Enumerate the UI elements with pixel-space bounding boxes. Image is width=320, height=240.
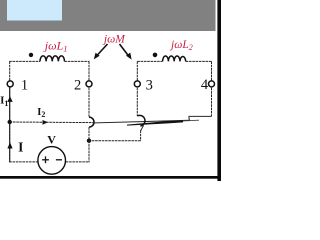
svg-text:2: 2 (74, 77, 81, 93)
wire: left rail (source branch) (9, 61, 11, 162)
wire: overshoot stroke past step (183, 119, 199, 122)
polarity dot of L1 (29, 53, 33, 57)
wire: left rail solid overlay node1 to I arrow (9, 88, 11, 162)
wire: right loop top segment left of coil (137, 60, 162, 62)
junction dot A (8, 120, 12, 124)
inductor L2 coil (163, 56, 186, 61)
wire: junction B down to bottom wire (88, 141, 90, 163)
wire: thick wedge stroke on I2 run (127, 120, 183, 125)
svg-text:1: 1 (21, 78, 28, 94)
source plus sign (42, 156, 49, 163)
voltage source V (38, 147, 66, 175)
header light-blue box (7, 0, 62, 21)
svg-text:3: 3 (146, 78, 153, 94)
wire: left loop top segment left of coil (9, 60, 40, 62)
wire: node-2 vertical lower to junction (88, 127, 90, 141)
inductor L1 coil (40, 56, 65, 62)
node 3 terminal (134, 81, 140, 87)
current arrow I2 (43, 120, 49, 125)
node 4 terminal (209, 81, 215, 87)
wire: node-3 vertical upper (136, 61, 138, 116)
right black border bar (217, 0, 221, 181)
page background (0, 0, 221, 181)
wire: horizontal connector to junction B (89, 140, 141, 142)
current arrow I (7, 142, 12, 148)
wire: node-4 vertical (211, 61, 213, 116)
mutual arrow right (120, 44, 130, 57)
wire: diagonal below node-3 hop (141, 125, 144, 131)
wire: bottom left segment (9, 161, 37, 163)
mutual arrow left (96, 44, 108, 57)
header gray band (0, 0, 216, 31)
svg-text:V: V (47, 133, 56, 147)
node 1 terminal (7, 81, 13, 87)
wire: I2 sloping run to right loop (95, 120, 190, 123)
source minus sign (56, 159, 62, 161)
svg-text:I: I (18, 140, 23, 155)
bottom black rule (0, 176, 221, 179)
current arrow I1 (7, 96, 12, 102)
wire: left loop top segment right of coil (65, 60, 90, 62)
polarity dot of L2 (153, 53, 158, 58)
hop: node-2 wire over I2 wire (89, 117, 94, 127)
svg-text:4: 4 (201, 77, 209, 93)
wire: I2 horizontal from source branch (10, 121, 95, 124)
junction dot B (87, 139, 91, 143)
wire: node-3 branch vertical to connector (140, 130, 142, 140)
node 2 terminal (86, 81, 92, 87)
svg-text:jωM: jωM (102, 33, 126, 45)
wire: step up near node-4 branch (188, 117, 191, 121)
wire: right loop top segment right of coil (186, 60, 212, 62)
wire: bottom segment source to junction branch (66, 161, 90, 163)
wire: horizontal into node-4 vertical (189, 115, 212, 117)
wire: node-2 vertical upper (88, 61, 90, 117)
hop: node-3 wire over I2 wire (137, 115, 145, 126)
